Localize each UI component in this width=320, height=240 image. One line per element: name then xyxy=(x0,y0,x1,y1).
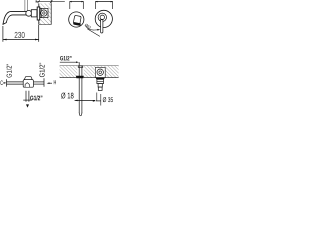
rotated G1/2 label right xyxy=(39,63,44,77)
left inlet pipe (plan) xyxy=(7,79,24,86)
bold G1/2 label (plan bottom) xyxy=(30,95,42,100)
right valve body below wall (section) xyxy=(96,78,105,91)
bottom outlet pipe (plan) xyxy=(23,91,32,108)
dimension over fig2 xyxy=(69,1,84,9)
handle escutcheon circle (fig3) xyxy=(95,10,112,27)
right valve cutout in wall xyxy=(95,68,105,78)
H label and arrow xyxy=(47,80,56,84)
bold G1/2 label (section) with leader xyxy=(60,56,79,66)
rotated G1/2 label left xyxy=(6,64,11,78)
wall hatch band (section) xyxy=(60,66,119,78)
wall hatch (fig1) xyxy=(39,3,51,24)
right inlet pipe (plan) xyxy=(34,78,44,87)
cropped vertical lines above spout nut xyxy=(24,0,26,11)
diameter 18 dimension (section) xyxy=(61,93,96,102)
handle hub rings (fig3) xyxy=(98,13,106,21)
escutcheon circle (fig2) xyxy=(69,12,84,27)
230 dimension (fig1) xyxy=(3,25,39,42)
left spout pipe (section) with escutcheon flange xyxy=(76,66,84,116)
dimension over fig3 xyxy=(95,1,113,9)
spout tube (fig1) xyxy=(3,11,28,24)
nut ring on spout (fig1) xyxy=(26,10,32,16)
wall thickness dimension line (top, text cut off) xyxy=(36,0,65,3)
C label and arrow xyxy=(0,81,6,85)
mixer body (plan) xyxy=(23,77,33,88)
spout front view / lever (fig2) xyxy=(73,15,82,26)
left pipe channel through wall xyxy=(77,66,84,77)
in-wall valve body (fig1) xyxy=(40,8,48,17)
tiny diameter label between circles xyxy=(84,24,100,37)
escutcheon plate at wall (fig1) xyxy=(37,7,40,20)
spout mounting block (fig1) xyxy=(31,10,37,17)
handle lever stem (fig3) xyxy=(101,20,103,33)
diameter 35 dimension (section) xyxy=(96,93,113,106)
